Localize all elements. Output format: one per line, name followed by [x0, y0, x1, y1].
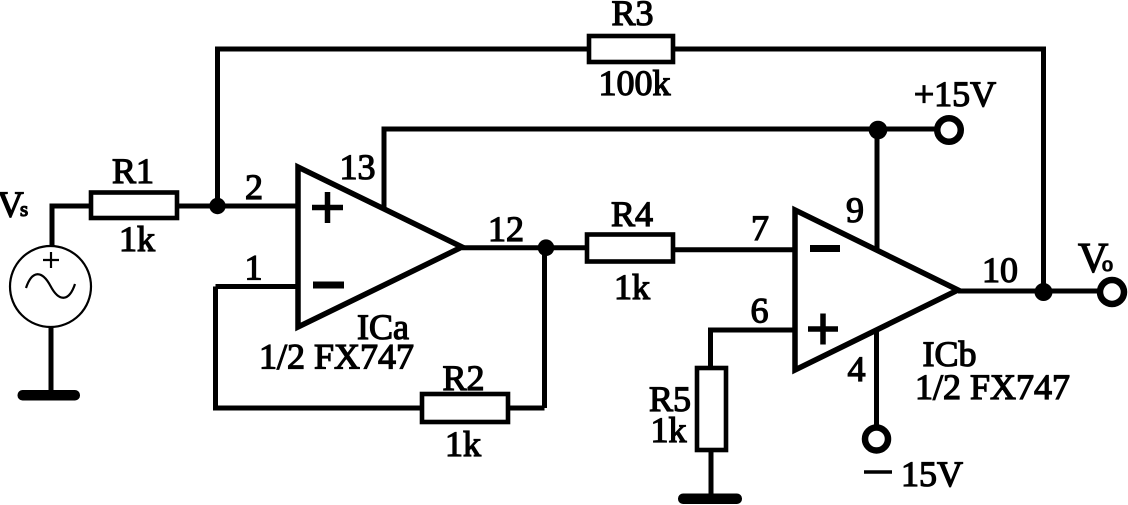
svg-text:s: s	[20, 197, 28, 221]
svg-text:2: 2	[245, 167, 263, 207]
wire riser R2 to ICa output	[542, 248, 547, 408]
svg-text:15V: 15V	[901, 454, 963, 494]
resistor R1	[91, 193, 177, 219]
svg-text:9: 9	[846, 190, 864, 230]
svg-text:7: 7	[751, 208, 769, 248]
label 6	[751, 291, 769, 331]
node input junction	[209, 198, 225, 214]
svg-text:1: 1	[245, 248, 263, 288]
svg-text:12: 12	[488, 209, 524, 249]
label +15V	[914, 74, 996, 114]
svg-text:1/2 FX747: 1/2 FX747	[915, 367, 1070, 407]
label 100k	[599, 63, 671, 103]
label Vo	[1078, 236, 1113, 282]
op-amp ICb	[795, 210, 958, 370]
wire ICa minus input	[216, 284, 299, 289]
svg-text:100k: 100k	[599, 63, 671, 103]
svg-text:R4: R4	[611, 194, 653, 234]
voltage source Vs	[10, 246, 91, 327]
label Vs	[0, 185, 28, 226]
label 1/2 FX747 (ICa)	[259, 337, 414, 377]
wire R2 to output riser	[508, 406, 545, 411]
label 1/2 FX747 (ICb)	[915, 367, 1070, 407]
wire left feedback riser	[213, 287, 218, 409]
wire riser to R5	[708, 328, 713, 369]
wire source bottom lead	[49, 327, 54, 393]
label 4	[848, 349, 866, 389]
svg-text:+15V: +15V	[914, 74, 996, 114]
svg-text:1/2 FX747: 1/2 FX747	[259, 337, 414, 377]
wire bottom feedback to R2	[213, 406, 422, 411]
svg-text:1k: 1k	[445, 424, 481, 464]
op-amp ICa	[298, 167, 462, 327]
wire R4 to ICb minus input	[673, 247, 795, 252]
svg-text:13: 13	[340, 147, 376, 187]
label 10	[982, 250, 1018, 290]
wire ICb plus input	[711, 328, 796, 333]
wire top rail right	[673, 47, 1044, 52]
terminal +15V	[937, 118, 961, 142]
label 1	[245, 248, 263, 288]
wire pin13 riser	[382, 127, 387, 210]
label 1k (R1)	[119, 219, 155, 259]
label 2	[245, 167, 263, 207]
resistor R5	[697, 368, 726, 450]
resistor R3	[589, 36, 673, 62]
svg-text:10: 10	[982, 250, 1018, 290]
label 1k (R2)	[445, 424, 481, 464]
label -15V	[864, 454, 963, 494]
svg-text:R1: R1	[112, 151, 154, 191]
label ICb	[923, 334, 977, 374]
wire +15V rail	[384, 127, 937, 132]
label 13	[340, 147, 376, 187]
label ICa	[357, 307, 409, 347]
svg-text:1k: 1k	[119, 219, 155, 259]
wire Vs to R1	[50, 204, 92, 209]
svg-text:R2: R2	[442, 358, 484, 398]
label 1k (R5)	[651, 410, 687, 450]
svg-text:4: 4	[848, 349, 866, 389]
ground (R5)	[678, 494, 742, 505]
wire pin9 riser	[875, 129, 880, 252]
resistor R4	[587, 235, 673, 262]
terminal -15V	[865, 428, 888, 451]
label 12	[488, 209, 524, 249]
node ICa output junction	[538, 239, 555, 256]
label 1k (R4)	[614, 267, 650, 307]
ground (source)	[18, 390, 81, 401]
svg-text:6: 6	[751, 291, 769, 331]
wire riser to top rail	[215, 47, 220, 207]
wire right riser	[1041, 47, 1046, 293]
label R3	[611, 0, 653, 33]
svg-text:1k: 1k	[651, 410, 687, 450]
wire pin4 riser	[874, 330, 879, 427]
wire source top lead	[50, 206, 55, 247]
wire R1 to op-amp + input	[177, 204, 298, 209]
resistor R2	[422, 394, 508, 422]
wire top rail left	[215, 47, 589, 52]
terminal Vo	[1100, 280, 1124, 304]
svg-text:o: o	[1102, 251, 1113, 276]
wire ICb output	[958, 289, 1100, 294]
wire ICa output to R4	[462, 245, 587, 250]
svg-text:1k: 1k	[614, 267, 650, 307]
label R2	[442, 358, 484, 398]
node +15V junction	[869, 121, 888, 140]
label R5	[649, 379, 691, 419]
wire R5 to ground	[709, 450, 714, 494]
node output junction	[1035, 283, 1053, 301]
label R1	[112, 151, 154, 191]
label 9	[846, 190, 864, 230]
svg-text:R3: R3	[611, 0, 653, 33]
label 7	[751, 208, 769, 248]
label R4	[611, 194, 653, 234]
